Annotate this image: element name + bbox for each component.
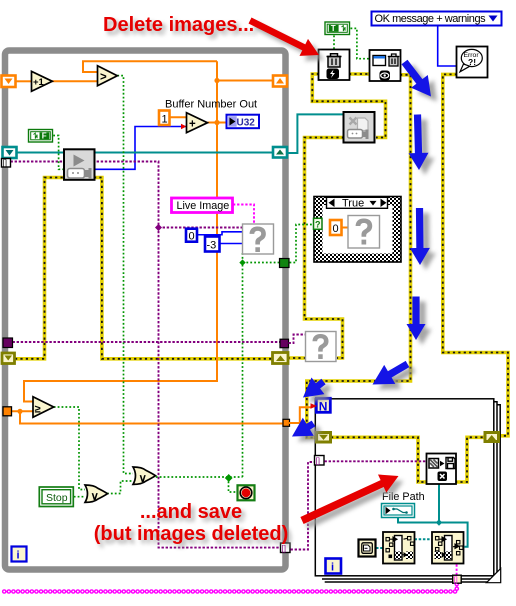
green square terminal right border [280, 259, 290, 268]
wire error: ?-icon left edge to right olive SR outside [289, 356, 306, 360]
iteration terminal i (while loop) [12, 547, 27, 562]
wire green: OR1 out to OR2 lower input [107, 481, 133, 494]
svg-text:File Path: File Path [382, 491, 425, 503]
svg-text:U32: U32 [237, 118, 256, 129]
text label Buffer Number Out [165, 99, 257, 111]
file path control [382, 504, 415, 518]
boolean constant F [29, 130, 53, 143]
red annotation text: ...and save [140, 501, 246, 527]
blue arrow 2 (down) [409, 114, 435, 175]
wire teal: left teal SR across loop to right teal SR [17, 152, 272, 154]
node: orange junction dots on rail [214, 78, 219, 125]
wire orange: + out to U32 through rail [208, 122, 227, 124]
camera grab VI icon [64, 149, 95, 180]
constant -3 (blue) [205, 237, 220, 252]
svg-text:(but images deleted): (but images deleted) [94, 523, 288, 545]
stop LED terminal [238, 485, 255, 500]
case selector terminal ? [314, 218, 323, 229]
svg-text:True: True [342, 198, 364, 210]
array constant [] on left border [2, 159, 11, 168]
array build VI icon 2 [432, 532, 464, 564]
constant 1 [159, 111, 170, 126]
wire purple: tunnel to save icon [325, 460, 428, 462]
shift register teal left (down arrow) [3, 147, 17, 158]
wire blue: -3 const to ?-icon1 [220, 243, 243, 245]
wire purple: right purple terminal to ?-icon2 [289, 335, 306, 344]
indicator U32 [227, 115, 260, 129]
wire orange: +1 out to > lower input [52, 80, 98, 82]
svg-text:?: ? [315, 219, 321, 229]
wire purple: branch to ?-icon1 [155, 224, 243, 231]
magenta image wire: icon to tunnel to bottom chain [1, 565, 457, 592]
svg-text:OK message + warnings: OK message + warnings [375, 13, 487, 25]
wire teal: file path control to array icon 2 [398, 518, 468, 547]
wire blue: dropdown to Error?! icon [438, 26, 457, 66]
shift register orange right (up arrow) [273, 76, 287, 87]
orange exit tunnel right border [283, 419, 290, 426]
wire green: > output long vertical to OR2 upper input [117, 76, 133, 474]
svg-text:+1: +1 [33, 77, 45, 88]
wire purple: left purple terminal across to right purple terminal [13, 341, 281, 343]
page curl bottom-right [486, 567, 503, 584]
IMAQ dispose (trash) VI icon [319, 50, 350, 81]
red annotation text: (but images deleted) [94, 523, 292, 549]
question-mark VI icon 1 [243, 224, 274, 254]
case selector label [327, 197, 388, 209]
wire green: T const right, down to trash2 [351, 28, 370, 58]
greater-than node [98, 66, 118, 86]
svg-text:>: > [100, 71, 107, 83]
blue arrow 3 (down) [410, 208, 436, 270]
wire teal: right teal SR outside to IMAQ-close icon [288, 114, 345, 153]
OR gate 1 [85, 485, 108, 503]
OR gate 2 [133, 467, 156, 485]
wire orange: left SR to +1 [16, 80, 32, 82]
IMAQ write file (save) VI icon [427, 454, 457, 485]
wire teal: array icon 1 to array icon 2 [415, 538, 433, 540]
svg-text:+: + [189, 118, 196, 130]
wire green: Stop to OR1 lower input [74, 496, 85, 498]
purple terminal right border [280, 339, 289, 348]
blue arrow 6 (down-left) [303, 378, 332, 403]
blue arrow 4 (down) [407, 297, 432, 346]
svg-text:N: N [319, 399, 328, 413]
wire orange: main vertical rail down, across, to >= upper input [24, 61, 217, 401]
wire error: for-loop left SR to save icon [331, 437, 427, 482]
stop button [39, 487, 73, 507]
svg-text:[]: [] [454, 575, 458, 584]
coercion dot red at N [311, 403, 318, 409]
question-mark VI icon 2 [306, 332, 337, 362]
for loop frame (stacked with page curl) [315, 399, 500, 582]
wire orange: left orange terminal to >= lower input and down to exit tunnel [11, 409, 283, 424]
wire error: save icon to for-loop right SR [455, 437, 485, 482]
for-loop shift register left (down arrow) [317, 433, 331, 443]
greater-or-equal node [33, 397, 54, 418]
increment +1 node [32, 71, 53, 91]
wire orange: 1-const to + upper input [169, 116, 187, 118]
magenta tunnel [] on for-loop bottom [453, 575, 462, 584]
svg-text:[]: [] [316, 456, 320, 465]
for-loop shift register right (up arrow) [485, 433, 499, 442]
IMAQ close camera VI icon [344, 112, 375, 143]
svg-text:1: 1 [162, 113, 168, 125]
wire purple: [] array const across, down, along bottom to [] tunnel [11, 162, 282, 548]
count terminal N [316, 398, 330, 413]
svg-text:T: T [331, 24, 336, 33]
wire magenta: Live Image label to ?-icon1 top [233, 205, 254, 225]
wire error: olive SR to camera bottom-left [15, 178, 64, 359]
shift register orange left (down arrow) [2, 76, 16, 88]
wire teal: save icon down to path rail [436, 485, 443, 526]
add node [187, 113, 208, 133]
Error?! VI icon [457, 47, 488, 78]
svg-text:i: i [331, 562, 334, 574]
red arrow 2 (to save icon) [300, 475, 403, 530]
label Live Image [172, 198, 233, 213]
wire green: ?-icon1 bottom-left drop, branch to green square tunnel, long vertical [239, 253, 280, 477]
svg-text:?!: ?! [468, 57, 476, 67]
label File Path [382, 491, 425, 503]
wire green: >= output down to OR1 upper input [54, 407, 85, 490]
wire error: Error?! icon left, down far right, into for-loop right SR [443, 74, 508, 435]
array build VI icon 1 [383, 532, 415, 564]
svg-text:[]: [] [3, 159, 7, 168]
constant 0 in case [330, 220, 348, 235]
blue arrow 5 (down-left) [373, 361, 416, 390]
blue arrow 7 (left) [292, 418, 321, 442]
wire blue: camera out right, up, to + lower input [94, 127, 186, 170]
svg-text:-3: -3 [207, 240, 217, 252]
blue arrow 1 (down-right) [402, 60, 438, 102]
wire error chain: trash1 left, down, right, down into IMAQ-close right edge [312, 74, 385, 138]
while loop border [5, 51, 286, 570]
svg-text:Delete images...: Delete images... [103, 14, 254, 36]
constant 0 (blue) [186, 229, 197, 243]
folder constant icon [359, 540, 376, 557]
svg-text:0: 0 [333, 223, 339, 235]
shift register teal right (up arrow) [273, 147, 287, 158]
wire green: green tunnel to case selector terminal [290, 225, 314, 263]
wire orange: rail to right-border orange SR [217, 80, 272, 82]
svg-text:i: i [17, 550, 20, 562]
svg-text:Buffer Number Out: Buffer Number Out [165, 99, 257, 111]
shift register olive right (up arrow) [273, 353, 289, 364]
wire error chain: IMAQ-close left, down left side, to ?-icon right edge [305, 138, 345, 359]
coercion dot red at + lower input [181, 124, 187, 129]
svg-text:Stop: Stop [46, 492, 68, 504]
wire blue: 0-const to ?-icon1 [198, 232, 243, 235]
svg-text:0: 0 [189, 231, 195, 243]
red annotation text: Delete images... [103, 14, 258, 40]
for-loop tunnel [] left [315, 456, 325, 466]
wire orange: > upper input loop up to top rail [83, 61, 217, 72]
OK message dropdown [372, 12, 502, 26]
wire orange: exit tunnel up to for-loop N terminal [289, 407, 312, 423]
shift register olive left (down arrow) [2, 353, 15, 364]
svg-text:Live Image: Live Image [177, 200, 230, 212]
boolean constant T [325, 22, 350, 35]
wire green: F const to camera [53, 136, 64, 170]
question-mark VI icon in case [348, 216, 380, 249]
wire error: trash2 right, down right side, to for-loop left SR [307, 75, 411, 438]
wire error: camera bottom-right down to right olive SR [94, 178, 272, 359]
wire teal: folder to array icon 1 [376, 547, 383, 549]
wire green: T const down to trash1 [333, 36, 335, 50]
wire purple: [] tunnel outside, up to for-loop tunnel [291, 462, 315, 550]
iteration terminal i (for loop) [326, 559, 342, 574]
svg-text:F: F [42, 132, 47, 141]
array tunnel [] bottom right border [281, 543, 291, 553]
red arrow 1 (to trash icon) [249, 18, 325, 61]
orange terminal left border [3, 407, 12, 416]
wire green: OR2 out to long vertical, LED branch [156, 474, 243, 492]
svg-text:...and save: ...and save [140, 501, 242, 523]
wire error: trash1 to trash2 [349, 72, 370, 76]
svg-text:≥: ≥ [35, 404, 41, 416]
svg-text:∨: ∨ [91, 491, 99, 503]
svg-text:∨: ∨ [139, 473, 147, 485]
case structure (True) [314, 197, 401, 263]
close display window VI icon [370, 50, 401, 81]
purple terminal left border [3, 338, 13, 348]
